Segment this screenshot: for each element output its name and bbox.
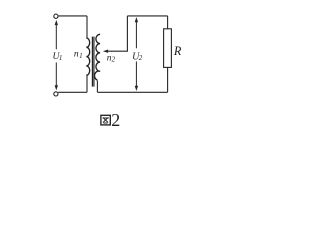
terminal (top-left) [54, 14, 58, 18]
wire: primary bottom rail [58, 91, 87, 93]
svg-text:1: 1 [79, 52, 83, 60]
wire: secondary lead down from coil [96, 81, 98, 93]
svg-text:2: 2 [112, 55, 116, 63]
resistor R [164, 29, 172, 68]
svg-text:2: 2 [111, 110, 120, 130]
primary winding n1 (4 bumps, bulge right toward core) [86, 38, 89, 75]
voltage arrow U1 (double-headed, between terminals) [55, 20, 58, 91]
terminal (bottom-left) [54, 92, 58, 96]
transformer core (two lines) [91, 37, 93, 87]
wire: right side below resistor [167, 67, 169, 92]
wire: secondary bottom rail [97, 91, 167, 93]
svg-text:1: 1 [59, 54, 63, 62]
tap arrow onto secondary winding [103, 16, 128, 53]
wire: right side down to resistor [167, 16, 169, 29]
svg-text:2: 2 [139, 54, 143, 62]
voltage arrow U2 (double-headed, inside right loop) [135, 17, 138, 91]
wire: secondary top rail [127, 15, 167, 17]
svg-text:R: R [173, 44, 182, 58]
secondary winding n2 (5 bumps, bulge left toward core) [94, 34, 100, 80]
wire: primary lead down from coil [86, 75, 88, 92]
caption glyph 图 (drawn) [101, 115, 110, 125]
wire: primary lead down to coil [86, 16, 88, 38]
wire: primary top rail [58, 15, 87, 17]
